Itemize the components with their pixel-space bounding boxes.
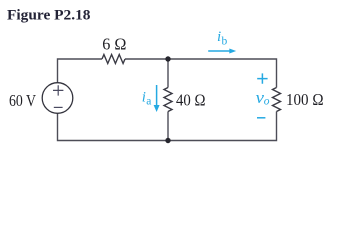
voltage source minus sign bbox=[54, 106, 63, 108]
svg-text:a: a bbox=[146, 95, 151, 107]
svg-text:o: o bbox=[264, 96, 270, 108]
wire bottom: from 100ohm bottom down, across bottom, up to source bottom bbox=[58, 112, 277, 141]
wire top-left: from 6ohm resistor left end to top-left corner down to source top bbox=[58, 59, 103, 83]
voltage source V1 circle bbox=[42, 83, 73, 114]
resistor R3 100 ohm (vertical, right branch) bbox=[273, 88, 281, 112]
wire top-right: from 6ohm resistor right end across to top-right corner down to 100ohm top bbox=[125, 59, 277, 88]
svg-text:60 V: 60 V bbox=[9, 91, 37, 110]
voltage polarity minus (below v_o) bbox=[257, 117, 265, 119]
junction node top (dot) bbox=[165, 56, 170, 61]
wire middle bottom: from 40ohm bottom to bottom node bbox=[167, 112, 169, 141]
svg-text:Figure P2.18: Figure P2.18 bbox=[7, 7, 91, 23]
svg-text:100 Ω: 100 Ω bbox=[286, 90, 324, 109]
junction node bottom (dot) bbox=[165, 138, 170, 143]
current arrow i_a (down) bbox=[156, 85, 158, 106]
svg-text:40 Ω: 40 Ω bbox=[176, 91, 206, 110]
resistor R1 6 ohm (horizontal, top wire) bbox=[102, 55, 125, 64]
voltage polarity plus (above v_o) bbox=[257, 73, 267, 83]
resistor R2 40 ohm (vertical, middle branch) bbox=[164, 88, 172, 112]
svg-text:b: b bbox=[222, 36, 228, 48]
svg-text:6 Ω: 6 Ω bbox=[102, 34, 126, 53]
wire middle top: from top node down to 40ohm top bbox=[167, 59, 169, 88]
current arrow i_b (right) bbox=[208, 50, 230, 52]
voltage source plus sign bbox=[53, 85, 63, 95]
